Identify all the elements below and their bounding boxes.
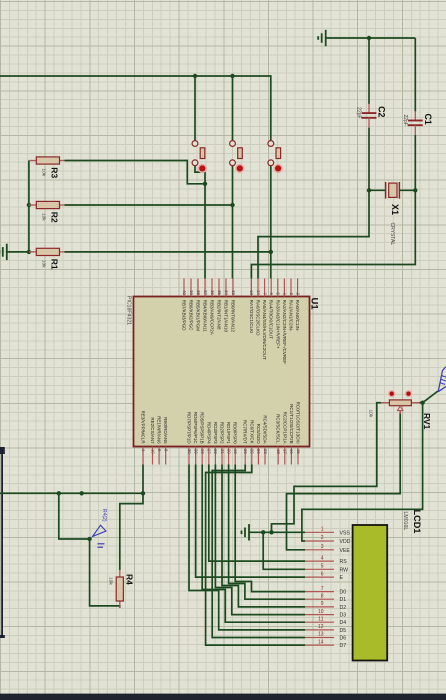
svg-text:36: 36 xyxy=(210,290,215,295)
svg-text:RD2/PSP2: RD2/PSP2 xyxy=(220,422,225,444)
svg-text:26: 26 xyxy=(243,449,248,454)
svg-text:10k: 10k xyxy=(368,410,374,418)
svg-text:18: 18 xyxy=(276,449,281,454)
svg-text:RB1/INT1/AN10: RB1/INT1/AN10 xyxy=(224,300,229,333)
svg-text:RC1/T1OSI/CCP2B: RC1/T1OSI/CCP2B xyxy=(289,404,294,444)
svg-text:6: 6 xyxy=(321,571,324,577)
svg-text:RB0/INT0/AN12: RB0/INT0/AN12 xyxy=(231,300,236,333)
svg-text:U1: U1 xyxy=(309,298,320,311)
svg-text:8: 8 xyxy=(321,593,324,599)
svg-text:22pF: 22pF xyxy=(356,107,362,118)
svg-text:23: 23 xyxy=(263,449,268,454)
svg-text:LCD1: LCD1 xyxy=(412,510,422,534)
svg-text:25: 25 xyxy=(250,449,255,454)
svg-text:21: 21 xyxy=(220,449,225,454)
svg-text:RB7/KBI3/PGD: RB7/KBI3/PGD xyxy=(182,300,187,332)
svg-text:10: 10 xyxy=(150,449,155,454)
svg-text:40: 40 xyxy=(182,290,187,295)
svg-text:RC0/T1OSO/T13CKI: RC0/T1OSO/T13CKI xyxy=(296,402,301,444)
svg-text:15: 15 xyxy=(296,449,301,454)
svg-text:RC5/SDO: RC5/SDO xyxy=(256,424,261,445)
svg-text:RV1: RV1 xyxy=(422,413,432,430)
svg-text:RW: RW xyxy=(340,567,349,573)
svg-text:38: 38 xyxy=(196,290,201,295)
svg-text:RE0/RD/AN5: RE0/RD/AN5 xyxy=(163,417,168,444)
svg-text:RC4/SDI/SDA: RC4/SDI/SDA xyxy=(263,415,268,443)
svg-text:10: 10 xyxy=(318,609,324,615)
svg-text:22pF: 22pF xyxy=(402,115,408,126)
svg-text:14: 14 xyxy=(256,290,261,295)
svg-text:D1: D1 xyxy=(340,597,347,603)
svg-text:RB6/KBI2/PGC: RB6/KBI2/PGC xyxy=(189,300,194,332)
svg-text:D7: D7 xyxy=(340,643,347,649)
svg-text:10k: 10k xyxy=(41,168,47,176)
svg-text:X1: X1 xyxy=(390,204,400,215)
svg-text:RD4/PSP4: RD4/PSP4 xyxy=(206,422,211,444)
svg-text:27: 27 xyxy=(207,449,212,454)
svg-text:RA2/AN2/C2IN+/VREF-/CVREF: RA2/AN2/C2IN+/VREF-/CVREF xyxy=(282,300,287,364)
svg-text:R3: R3 xyxy=(50,167,60,178)
svg-text:19: 19 xyxy=(233,449,238,454)
svg-text:2: 2 xyxy=(321,535,324,541)
svg-text:4: 4 xyxy=(321,555,324,561)
svg-text:RB5/KBI1/PGM: RB5/KBI1/PGM xyxy=(196,300,201,332)
svg-text:VDD: VDD xyxy=(340,539,351,545)
svg-text:RB2/INT2/AN8: RB2/INT2/AN8 xyxy=(217,300,222,330)
svg-text:13: 13 xyxy=(249,290,254,295)
svg-text:29: 29 xyxy=(193,449,198,454)
svg-text:RD6/PSP6/P1C: RD6/PSP6/P1C xyxy=(193,412,198,445)
svg-text:RA0/AN0/C1IN-: RA0/AN0/C1IN- xyxy=(295,300,300,332)
svg-text:C2: C2 xyxy=(377,106,387,117)
svg-text:VSS: VSS xyxy=(340,530,351,536)
svg-text:RC7/RX/DT: RC7/RX/DT xyxy=(243,420,248,444)
svg-text:28: 28 xyxy=(200,449,205,454)
svg-text:RA7/OSC1/CLKI: RA7/OSC1/CLKI xyxy=(249,300,254,334)
svg-text:RC6/TX/CK: RC6/TX/CK xyxy=(249,420,254,444)
svg-text:10k: 10k xyxy=(108,577,114,585)
svg-text:35: 35 xyxy=(217,290,222,295)
svg-text:30: 30 xyxy=(187,449,192,454)
svg-text:7: 7 xyxy=(321,586,324,592)
svg-text:22: 22 xyxy=(213,449,218,454)
svg-text:RE2/CS/AN7: RE2/CS/AN7 xyxy=(150,417,155,444)
svg-text:RD3/PSP3: RD3/PSP3 xyxy=(213,422,218,444)
svg-text:RA6/OSC2/CLKO: RA6/OSC2/CLKO xyxy=(256,300,261,336)
svg-text:RD7/PSP7/P1D: RD7/PSP7/P1D xyxy=(187,412,192,445)
svg-text:RD0/PSP0: RD0/PSP0 xyxy=(233,422,238,444)
svg-text:10k: 10k xyxy=(41,260,47,268)
svg-text:RC3/SCK/SCL: RC3/SCK/SCL xyxy=(276,414,281,444)
svg-text:D2: D2 xyxy=(340,605,347,611)
svg-text:LM016L: LM016L xyxy=(402,512,408,531)
svg-text:RD1/PSP1: RD1/PSP1 xyxy=(226,422,231,444)
svg-text:1: 1 xyxy=(321,527,324,533)
svg-text:RC2/CCP1/P1A: RC2/CCP1/P1A xyxy=(282,412,287,444)
svg-text:E: E xyxy=(340,575,344,581)
svg-text:PIC18F4321: PIC18F4321 xyxy=(126,296,132,325)
svg-text:R1: R1 xyxy=(50,259,60,270)
svg-text:20: 20 xyxy=(226,449,231,454)
svg-text:9: 9 xyxy=(321,601,324,607)
svg-text:11: 11 xyxy=(318,616,323,622)
svg-text:D5: D5 xyxy=(340,628,347,634)
svg-text:10k: 10k xyxy=(41,213,47,221)
svg-text:D3: D3 xyxy=(340,613,347,619)
svg-text:RA4/T0CKI/C1OUT: RA4/T0CKI/C1OUT xyxy=(269,300,274,340)
svg-text:RB4/KBI0/AN11: RB4/KBI0/AN11 xyxy=(203,300,208,332)
svg-text:CRYSTAL: CRYSTAL xyxy=(389,223,395,246)
svg-text:13: 13 xyxy=(318,632,324,638)
svg-text:16: 16 xyxy=(289,449,294,454)
svg-text:RA5/AN4/SS/HLVDIN/C2OUT: RA5/AN4/SS/HLVDIN/C2OUT xyxy=(262,300,267,360)
svg-text:24: 24 xyxy=(256,449,261,454)
svg-text:5: 5 xyxy=(321,564,324,570)
svg-text:RE1/WR/AN6: RE1/WR/AN6 xyxy=(157,416,162,444)
svg-text:39: 39 xyxy=(189,290,194,295)
svg-text:D6: D6 xyxy=(340,636,347,642)
svg-text:D0: D0 xyxy=(340,590,347,596)
svg-text:VEE: VEE xyxy=(340,548,351,554)
svg-text:R4: R4 xyxy=(125,574,135,585)
svg-text:12: 12 xyxy=(318,624,324,630)
svg-text:C1: C1 xyxy=(423,114,433,125)
svg-text:RD5/PSP5/P1B: RD5/PSP5/P1B xyxy=(200,412,205,444)
svg-text:RE3/VPP/MCLR: RE3/VPP/MCLR xyxy=(141,411,146,445)
svg-text:3: 3 xyxy=(321,544,324,550)
svg-text:R4(2): R4(2) xyxy=(101,509,107,522)
svg-text:D4: D4 xyxy=(340,620,347,626)
svg-text:14: 14 xyxy=(318,639,324,645)
svg-text:34: 34 xyxy=(224,290,229,295)
svg-text:33: 33 xyxy=(231,290,236,295)
svg-text:17: 17 xyxy=(283,449,288,454)
svg-text:RS: RS xyxy=(340,559,348,565)
svg-text:RA1/AN1/C2IN-: RA1/AN1/C2IN- xyxy=(289,300,294,332)
svg-text:R2: R2 xyxy=(50,212,60,223)
svg-text:RB3/AN9/CCP2A: RB3/AN9/CCP2A xyxy=(210,300,215,335)
svg-text:RA3/AN3/C1IN+/VREF+: RA3/AN3/C1IN+/VREF+ xyxy=(275,300,280,349)
svg-text:37: 37 xyxy=(203,290,208,295)
